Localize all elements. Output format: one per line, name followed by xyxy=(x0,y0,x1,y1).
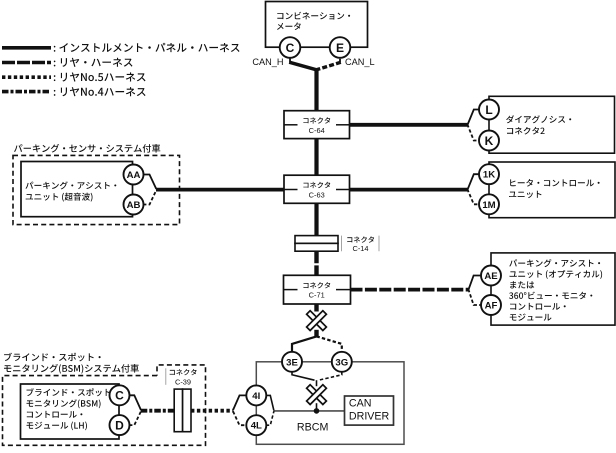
RBCM internal wire from 3G (dashed) xyxy=(319,372,342,381)
legend sample: rear No.4 harness (dash-dot) xyxy=(2,90,51,94)
CAN DRIVER box xyxy=(345,396,394,425)
RBCM pin 3E xyxy=(282,352,302,372)
diagnosis connector 2 label line 1 xyxy=(506,115,571,123)
trunk wire: C-63 to C-14 xyxy=(314,203,318,235)
connector C-14 label xyxy=(347,236,374,242)
trunk wire: twist point to split (dashed) xyxy=(314,330,318,337)
legend label: rear harness xyxy=(54,58,133,67)
combination meter label line 2 xyxy=(277,22,301,30)
svg-text:4L: 4L xyxy=(251,421,262,432)
wire CAN_L from pin E (dashed) xyxy=(339,48,341,63)
wire CAN_H diagonal to trunk xyxy=(289,62,316,70)
C-14 label separator right xyxy=(378,236,380,252)
svg-text:L: L xyxy=(485,103,492,117)
meter pin C xyxy=(280,37,301,58)
wire branch to pin AF (dashed) xyxy=(468,289,481,305)
wire branch to pin 4L (dashed) xyxy=(233,411,246,425)
RBCM internal wire twist to junction xyxy=(316,403,318,411)
wire BSM to C-39 (thick dash-dot, rear No.4) xyxy=(141,409,174,413)
wire split to pin 3G (dashed) xyxy=(317,336,342,352)
svg-text:E: E xyxy=(336,41,344,55)
svg-text:C: C xyxy=(115,389,124,403)
svg-text:4I: 4I xyxy=(252,391,260,402)
svg-text:CAN_H: CAN_H xyxy=(252,57,283,67)
RBCM pin 4I xyxy=(246,385,266,405)
svg-text:RBCM: RBCM xyxy=(297,422,329,434)
C-14 label separator left xyxy=(341,236,343,252)
RBCM internal wire into lower twist xyxy=(316,380,318,386)
RBCM pin 4L xyxy=(246,415,266,435)
legend label: rear No.4 harness xyxy=(54,87,146,96)
BSM pin C xyxy=(110,385,130,405)
svg-text:C-39: C-39 xyxy=(175,377,191,386)
meter pin E xyxy=(330,37,351,58)
connector C-63 label xyxy=(303,182,330,188)
wire branch to pin 1M (dashed) xyxy=(467,189,479,204)
svg-text:AF: AF xyxy=(485,300,498,311)
optical box label line 2 xyxy=(510,270,603,279)
wire parking assist to C-63 (thick solid) xyxy=(156,188,284,192)
trunk wire: C-71 to twist point (dashed) xyxy=(314,304,318,312)
parking assist optical / 360 view monitor box xyxy=(491,253,615,325)
wire branch to pin 1K (solid) xyxy=(467,174,479,190)
wire C-71 to parking assist optical (thick dashed) xyxy=(351,288,469,292)
caption: vehicles with BSM system line 2 xyxy=(4,364,139,374)
trunk wire: C-14 to C-71 (dashed) xyxy=(314,251,318,275)
connector C-71 label xyxy=(303,282,330,288)
wire from pin AB (dashed) xyxy=(143,190,156,204)
svg-text:CAN_L: CAN_L xyxy=(345,57,375,67)
wire branch to pin 4I (solid) xyxy=(233,395,246,410)
legend label: instrument panel harness xyxy=(54,43,240,52)
connector C-39 symbol right half xyxy=(183,389,191,432)
svg-text:3E: 3E xyxy=(286,357,298,368)
legend sample: rear harness (dashed) xyxy=(2,61,51,65)
RBCM pin 3G xyxy=(332,352,352,372)
combination meter label line 1 xyxy=(277,12,350,20)
connector C-71 box xyxy=(284,275,351,304)
caption: vehicles with parking sensor system xyxy=(14,144,160,153)
caption: vehicles with BSM system line 1 xyxy=(4,353,101,362)
BSM module label line 4 xyxy=(27,422,88,431)
optical box pin AE xyxy=(481,266,501,286)
diagnosis pin L xyxy=(479,100,499,120)
BSM system dashed enclosure xyxy=(3,365,206,445)
heater pin 1M xyxy=(479,194,499,214)
C-39 label separator xyxy=(165,368,167,385)
svg-text:C-64: C-64 xyxy=(309,126,325,135)
svg-text:CAN: CAN xyxy=(349,398,372,410)
C-63 right notch xyxy=(336,189,350,191)
parking sensor system dashed enclosure xyxy=(13,155,180,224)
diagnosis connector 2 box xyxy=(489,96,615,153)
C-71 right notch xyxy=(336,289,351,291)
C-64 right notch xyxy=(336,124,350,126)
connector C-14 symbol lower half xyxy=(295,243,338,251)
RBCM internal wire from 4L (dashed) xyxy=(266,411,274,425)
wire C-63 to heater control unit (thick solid) xyxy=(350,188,468,192)
heater control unit label line 2 xyxy=(509,191,542,198)
parking assist pin AB xyxy=(124,195,144,215)
connector C-64 box xyxy=(284,111,350,139)
wire from BSM pin C (solid) xyxy=(129,395,141,410)
wire branch to pin L (solid) xyxy=(467,110,479,126)
BSM module label line 2 xyxy=(27,399,101,408)
optical box label line 3 xyxy=(510,281,534,288)
parking assist unit label line 2 xyxy=(26,193,93,202)
diagnosis pin K xyxy=(479,131,499,151)
BSM control module box xyxy=(21,384,120,439)
svg-text:1K: 1K xyxy=(483,170,495,181)
svg-text:C-71: C-71 xyxy=(309,291,325,300)
svg-text:1M: 1M xyxy=(482,200,495,211)
combination meter box xyxy=(266,2,368,48)
twisted pair mark upper xyxy=(307,311,327,331)
svg-text:C-63: C-63 xyxy=(309,190,325,199)
RBCM internal wire from 4I (solid) xyxy=(266,395,274,410)
wire C-64 to diagnosis connector (thick solid) xyxy=(350,123,468,127)
parking assist unit label line 1 xyxy=(25,181,116,189)
parking assist unit (ultrasonic) box xyxy=(21,162,133,217)
connector C-63 box xyxy=(284,175,350,203)
junction node on RBCM CAN bus xyxy=(314,408,320,414)
svg-text:3G: 3G xyxy=(335,357,348,368)
wire branch to pin K (dashed) xyxy=(467,124,479,140)
svg-text:DRIVER: DRIVER xyxy=(349,411,390,423)
C-63 left notch xyxy=(284,189,298,191)
svg-text:AA: AA xyxy=(127,170,141,181)
legend label: rear No.5 harness xyxy=(54,72,146,81)
wire from pin AA (solid) xyxy=(143,175,156,190)
svg-text:AB: AB xyxy=(127,200,141,211)
optical box pin AF xyxy=(481,295,501,315)
optical box label line 4 xyxy=(509,292,592,300)
RBCM internal wire from 3E (solid) xyxy=(292,372,315,381)
optical box label line 1 xyxy=(509,259,600,267)
svg-text:C: C xyxy=(286,41,295,55)
svg-text:D: D xyxy=(115,418,124,432)
heater control unit label line 1 xyxy=(510,179,599,187)
trunk wire: meter junction to C-64 xyxy=(314,69,318,112)
wire branch to pin AE (solid) xyxy=(468,276,481,291)
parking assist pin AA xyxy=(124,165,144,185)
connector C-14 symbol upper half xyxy=(295,236,338,244)
RBCM module box xyxy=(256,362,404,445)
connector C-39 label xyxy=(170,369,197,375)
C-64 left notch xyxy=(284,124,298,126)
trunk wire: C-64 to C-63 xyxy=(314,139,318,176)
wire C-39 to RBCM (thick dotted, rear No.5) xyxy=(191,409,233,413)
BSM module label line 3 xyxy=(27,411,83,418)
connector C-39 symbol left half xyxy=(174,389,182,432)
svg-text:K: K xyxy=(485,134,494,148)
heater control unit box xyxy=(489,162,615,218)
BSM pin D xyxy=(110,415,130,435)
wire CAN_H from pin C (solid) xyxy=(289,48,291,63)
legend sample: rear No.5 harness (dotted) xyxy=(2,75,51,79)
RBCM internal CAN bus (gray) xyxy=(274,410,345,412)
wire from BSM pin D (dashed) xyxy=(129,411,141,425)
heater pin 1K xyxy=(479,164,499,184)
legend sample: instrument panel harness (solid) xyxy=(2,46,51,50)
C-71 left notch xyxy=(284,289,298,291)
wire split to pin 3E (solid) xyxy=(292,336,317,352)
wire CAN_L diagonal to trunk (dashed) xyxy=(317,62,341,70)
svg-text:AE: AE xyxy=(484,271,498,282)
twisted pair mark lower (inside RBCM) xyxy=(307,385,327,405)
BSM module label line 1 xyxy=(27,388,117,396)
optical box label line 6 xyxy=(510,314,552,321)
connector C-64 label xyxy=(303,117,330,123)
svg-text:C-14: C-14 xyxy=(352,244,368,253)
optical box label line 5 xyxy=(510,303,566,310)
diagnosis connector 2 label line 2 xyxy=(507,127,545,135)
